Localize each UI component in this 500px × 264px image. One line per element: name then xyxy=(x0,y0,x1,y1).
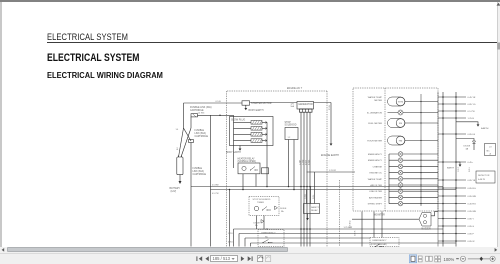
bus right outer xyxy=(455,92,457,247)
wire diagonal X1 xyxy=(184,128,192,141)
vscroll up arrow xyxy=(497,3,500,6)
zoom in button xyxy=(490,256,495,261)
hscroll left arrow xyxy=(2,248,5,252)
net 0.85 LB xyxy=(438,133,466,135)
fusible link F1 30A xyxy=(191,114,198,117)
timer drops xyxy=(256,216,258,230)
wire battery top feed xyxy=(184,102,243,104)
lamp EMERGENCY xyxy=(398,152,403,157)
safety relay wires up xyxy=(306,190,308,204)
lamp SPEED SHIFT xyxy=(398,201,403,206)
heading 2 xyxy=(47,71,163,80)
emergency (for regular) dashed box xyxy=(370,238,399,247)
right scrollbar strip xyxy=(497,2,500,247)
bus bottom D xyxy=(251,243,457,247)
heater relay drops xyxy=(242,174,244,190)
net 0.85 WB xyxy=(438,210,466,212)
stop solenoid timer dashed box xyxy=(249,197,279,216)
wire diagonal X3 xyxy=(179,128,184,157)
illumination lamp xyxy=(398,110,403,115)
diode D2 xyxy=(261,220,264,224)
starter earth xyxy=(245,105,247,108)
layout icon single (selected) xyxy=(409,255,416,263)
net 0.85 YB xyxy=(438,179,466,181)
diode D3 xyxy=(456,139,474,142)
net 0.85 W xyxy=(438,240,466,242)
wire glow collector down xyxy=(266,141,268,187)
wire engine earth drop xyxy=(330,103,332,144)
lamp LINE FILTER xyxy=(398,189,403,194)
wire link drop xyxy=(190,117,192,128)
net 0.85 YG xyxy=(438,103,466,105)
zoom out button xyxy=(456,258,459,259)
buzzer feed wire xyxy=(352,218,419,220)
combo caret xyxy=(232,258,235,260)
bus mid B xyxy=(211,189,457,191)
cluster right rail xyxy=(420,94,422,206)
layout icon two-up xyxy=(426,256,429,261)
lamp WATER TEMP xyxy=(398,177,403,182)
lamp CHARGE xyxy=(398,164,403,169)
horizontal scrollbar xyxy=(0,247,500,253)
bottom dots xyxy=(300,228,302,230)
stop solenoid pins xyxy=(288,140,290,187)
glow collector vertical xyxy=(266,122,268,140)
diode box D0 xyxy=(262,168,269,174)
nav next page button xyxy=(241,256,244,261)
wire long vertical from F2 xyxy=(190,143,192,247)
running header text xyxy=(47,33,128,42)
buzzer wires xyxy=(431,212,435,216)
safety relay K2 xyxy=(304,204,320,214)
bus 1.25BY xyxy=(307,171,356,173)
net 0.85 G xyxy=(438,225,466,227)
layout icon continuous xyxy=(418,256,422,259)
net 0.45 RG xyxy=(438,203,466,205)
net 0.85 Y xyxy=(438,218,466,220)
heater relay K1 xyxy=(238,163,260,174)
starter motor M1 xyxy=(242,101,250,105)
nav prev page button xyxy=(205,256,208,261)
wire diagonal X2 xyxy=(181,128,191,157)
page combo box xyxy=(210,255,238,263)
MC box xyxy=(485,144,496,156)
glow feed vertical xyxy=(233,115,235,168)
earth mid xyxy=(456,162,460,165)
svg-text:100%: 100% xyxy=(444,257,455,262)
net 0.5 YW xyxy=(438,110,466,112)
cluster inner dashed edge xyxy=(384,88,386,211)
header rule xyxy=(47,42,497,43)
bottom toolbar xyxy=(0,253,500,264)
wire starter to engine-earth rail xyxy=(250,102,332,104)
detector box xyxy=(476,171,495,183)
generator connector xyxy=(300,109,313,112)
stop solenoid Y1 xyxy=(285,128,298,140)
lamp EMERGENCY xyxy=(398,158,403,163)
net 0.85 RG xyxy=(438,187,466,189)
generator wires down xyxy=(300,112,302,247)
glow plug G2 xyxy=(234,127,252,129)
vscroll thumb mark xyxy=(497,43,500,50)
generator G1 xyxy=(297,102,314,110)
wire long vertical bus L3 xyxy=(229,190,231,247)
bus bottom C xyxy=(245,238,370,247)
earth right top xyxy=(456,122,478,125)
hour meter xyxy=(388,136,406,145)
instrument cluster dashed box xyxy=(353,88,438,211)
emergency switch dashed box xyxy=(258,230,284,247)
cluster lamp ladder xyxy=(388,154,390,204)
fusible link F2 80A xyxy=(189,140,194,143)
glow plug G4 xyxy=(234,140,252,142)
left window edge xyxy=(0,2,2,247)
glow plug box xyxy=(230,117,274,146)
harness dashed boundary lower xyxy=(339,180,341,247)
bus bottom B xyxy=(239,234,438,247)
safety relay earth xyxy=(307,214,309,219)
zoom slider thumb xyxy=(480,257,483,261)
bus mid A xyxy=(191,186,443,188)
net 0.85 WB xyxy=(438,195,466,197)
battery B1 xyxy=(177,157,183,175)
next view icon xyxy=(266,256,271,262)
water temp meter xyxy=(388,97,406,106)
wire long vertical bus L2 xyxy=(210,115,212,246)
nav first page button xyxy=(196,256,197,261)
net 0.45 r xyxy=(438,161,466,163)
zoom slider track xyxy=(468,257,490,260)
glow plug G1 xyxy=(234,121,252,123)
lamp AIR HEATER xyxy=(398,195,403,200)
diode D1 xyxy=(275,206,278,210)
glow box earth xyxy=(239,146,241,149)
bus right inner xyxy=(442,92,444,247)
lamp AIR FILTER xyxy=(398,183,403,188)
emergency contacts xyxy=(376,244,385,247)
bus junction dots xyxy=(266,186,268,188)
cluster bottom drops xyxy=(361,212,363,247)
window top bar xyxy=(0,0,500,2)
net 1.25 B xyxy=(438,117,466,119)
wire battery vertical xyxy=(183,103,185,128)
heading 1 xyxy=(47,53,139,64)
hscroll right arrow xyxy=(495,248,498,252)
net 0.85 P xyxy=(438,233,466,235)
prev view icon xyxy=(258,256,263,262)
bottom corner A xyxy=(233,229,235,247)
engine harness dashed box xyxy=(227,90,327,92)
fuel meter xyxy=(388,119,406,128)
bus bottom 1.25BW xyxy=(234,228,444,230)
wire fusible link to glow feed xyxy=(198,114,234,116)
node top junction xyxy=(219,115,221,117)
nav last page button xyxy=(248,256,251,261)
cluster edge bus xyxy=(437,92,439,247)
net 0.45 YR xyxy=(438,96,466,98)
wire battery bottom arrow xyxy=(179,175,181,181)
layout icon two-up continuous xyxy=(435,256,438,259)
glow plug G3 xyxy=(234,133,252,135)
buzzer BZ1 xyxy=(419,213,431,227)
lamp ENGINE OIL xyxy=(398,170,403,175)
